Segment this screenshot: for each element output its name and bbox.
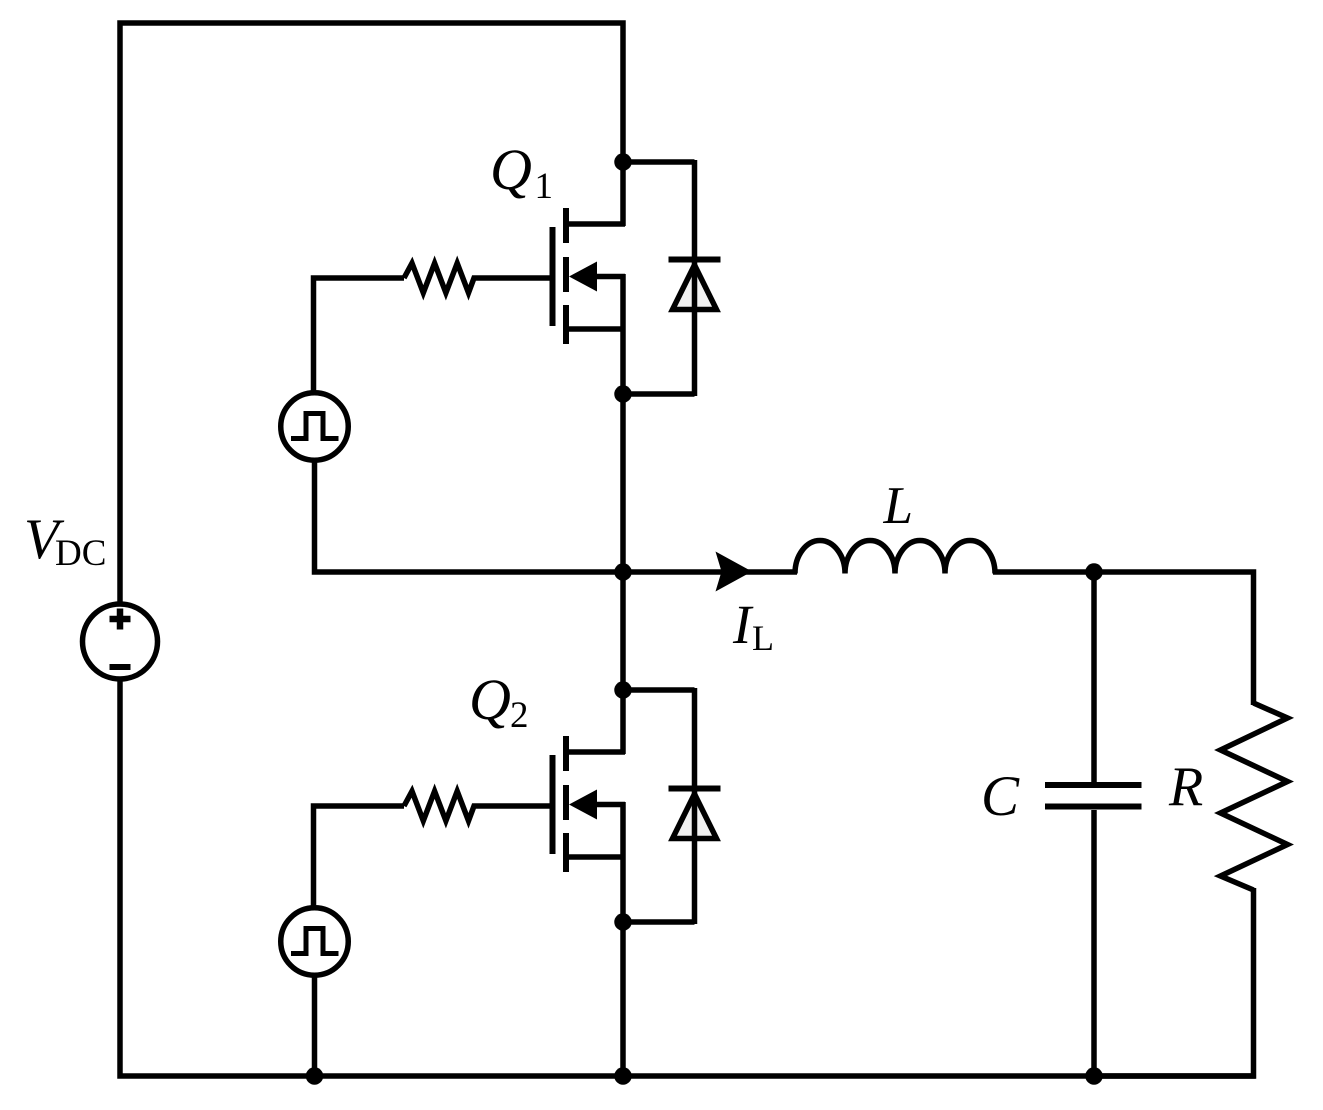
label VDC xyxy=(24,508,106,574)
wire: resistor R bottom to bottom rail xyxy=(1091,888,1254,1076)
label R xyxy=(1168,756,1203,818)
label L xyxy=(883,477,913,535)
transistor Q2 xyxy=(553,736,626,924)
svg-text:Q: Q xyxy=(469,667,511,732)
resistor R (load) xyxy=(1221,703,1288,890)
wire: pulse source V2 top to Q2 gate resistor xyxy=(314,806,405,906)
arrow: inductor current direction xyxy=(716,552,753,592)
voltage source VDC xyxy=(83,604,158,679)
wire: VDC positive terminal up, top rail, down to Q1 drain node xyxy=(120,23,623,604)
node: Q2 source junction xyxy=(614,913,632,931)
diode D1 (Q1 body diode) xyxy=(623,160,721,396)
pulse source V1 (Q1 gate driver) xyxy=(281,393,349,461)
capacitor C xyxy=(1045,570,1142,1078)
diode D2 (Q2 body diode) xyxy=(623,688,721,924)
svg-text:1: 1 xyxy=(535,166,554,207)
node: bottom rail / V2 junction xyxy=(306,1067,324,1085)
label Q2 xyxy=(469,667,529,736)
svg-text:Q: Q xyxy=(490,137,532,202)
svg-text:C: C xyxy=(981,765,1020,828)
label C xyxy=(981,765,1020,828)
wire: switch node to Q2 drain node xyxy=(620,570,626,754)
node: bottom rail / capacitor junction xyxy=(1085,1067,1103,1085)
pulse source V2 (Q2 gate driver) xyxy=(281,908,349,976)
svg-text:I: I xyxy=(732,594,754,655)
svg-text:R: R xyxy=(1168,756,1203,818)
node: Q1 source junction xyxy=(614,385,632,403)
node: Q1 drain junction xyxy=(614,153,632,171)
label Q1 xyxy=(490,137,553,207)
wire: output node to resistor R top xyxy=(1091,572,1254,705)
node: output node top xyxy=(1085,563,1103,581)
inductor L xyxy=(795,541,995,574)
transistor Q1 xyxy=(553,208,626,396)
wire: pulse source V1 top to Q1 gate resistor xyxy=(314,278,405,391)
svg-text:2: 2 xyxy=(510,695,529,736)
resistor R2 (Q2 gate resistor) xyxy=(404,791,550,821)
wire: pulse source V2 bottom to bottom rail xyxy=(312,976,318,1078)
svg-text:L: L xyxy=(752,618,774,658)
wire: pulse source V1 bottom to switch node xyxy=(315,461,626,572)
wire: Q2 source node to bottom rail xyxy=(620,920,626,1078)
node: Q2 drain junction xyxy=(614,681,632,699)
wire: inductor to output node xyxy=(993,569,1096,575)
resistor R1 (Q1 gate resistor) xyxy=(404,263,550,293)
label IL xyxy=(732,594,774,658)
wire: VDC negative terminal down, bottom rail xyxy=(120,679,1256,1076)
node: bottom rail / Q2 source junction xyxy=(614,1067,632,1085)
svg-text:DC: DC xyxy=(55,533,106,574)
wire: Q1 source node to switch node xyxy=(620,392,626,574)
wire: switch node to inductor xyxy=(620,569,797,575)
node: switch node xyxy=(614,563,632,581)
svg-text:L: L xyxy=(883,477,913,535)
